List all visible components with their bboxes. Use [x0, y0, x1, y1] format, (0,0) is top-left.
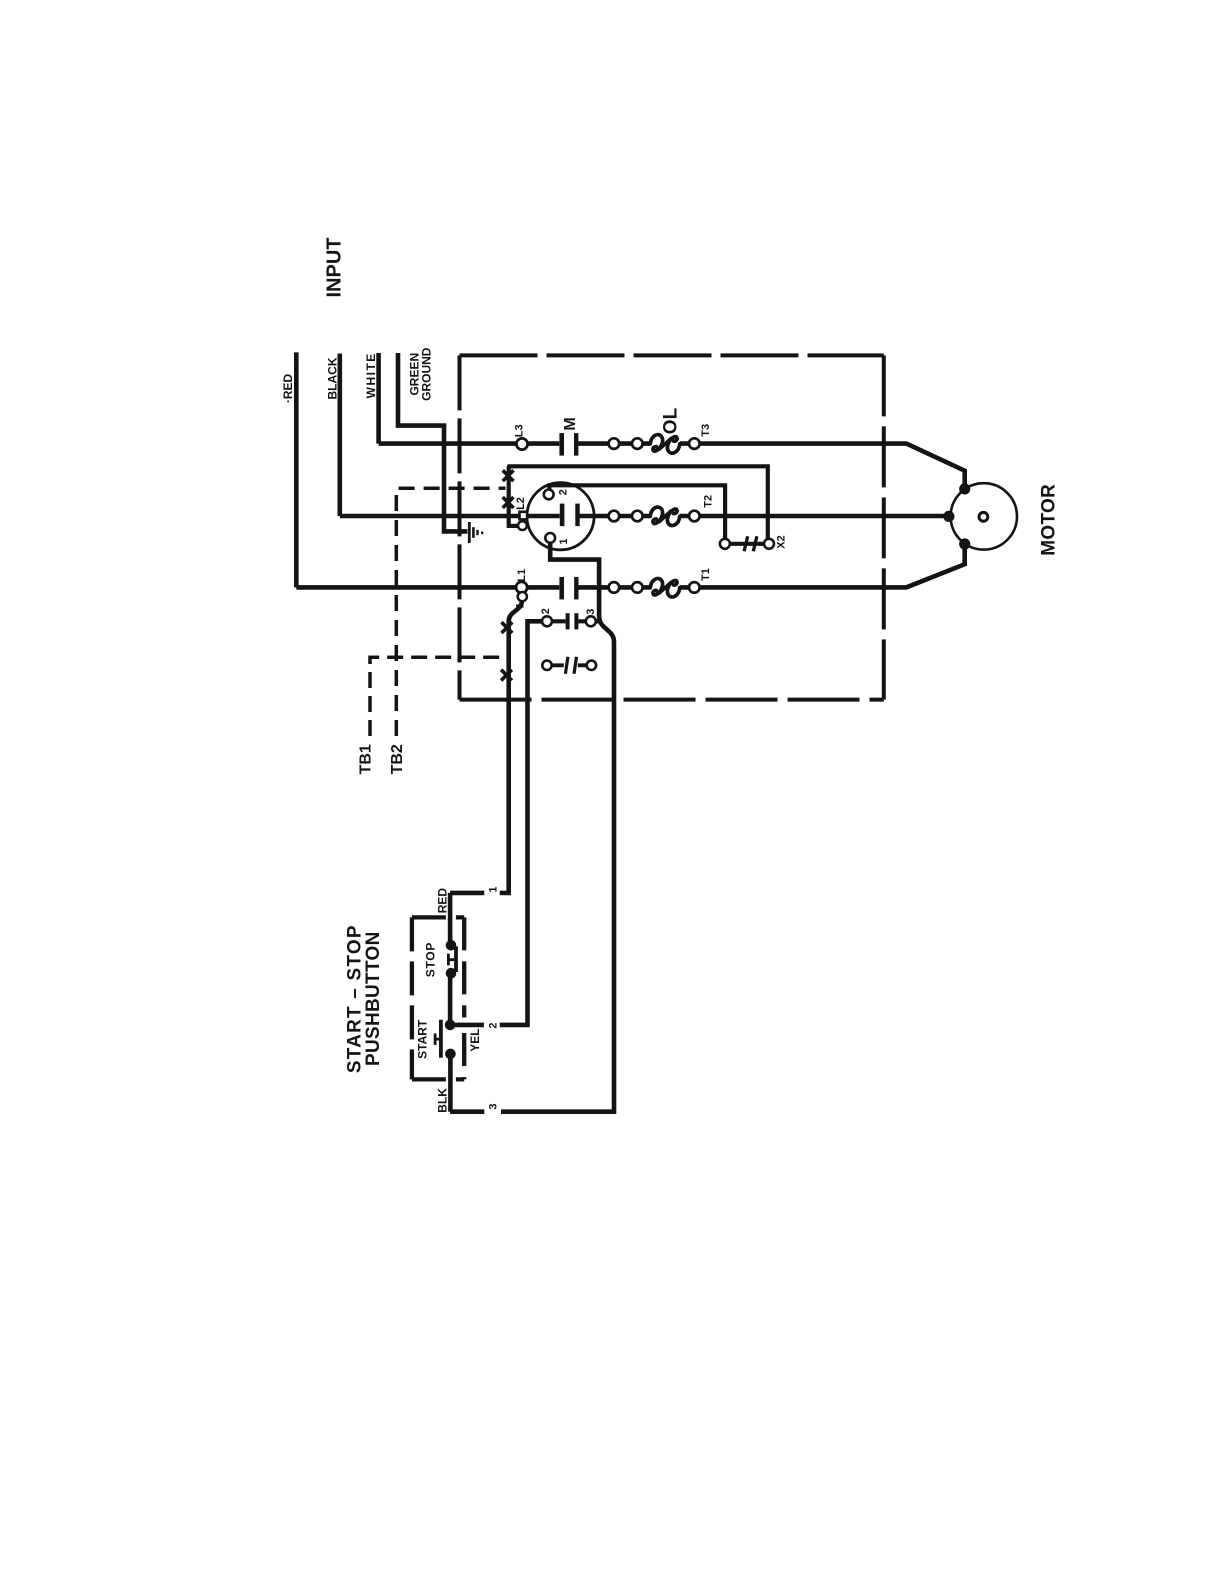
svg-text:TB1: TB1 [358, 744, 375, 774]
OL block terminal circles top phase [609, 438, 620, 449]
OL block terminal circles bottom phase [609, 582, 620, 593]
terminal cross X upper [503, 470, 514, 481]
wire aux terminal 2 down to YEL pushbutton wire [500, 621, 547, 1025]
input wire BLACK vertical [337, 354, 342, 517]
svg-text:·RED: ·RED [281, 374, 295, 404]
terminal circle L1 [516, 582, 527, 593]
svg-text:T1: T1 [700, 568, 712, 581]
input wire WHITE vertical [376, 353, 381, 444]
START contact dots [445, 1020, 456, 1031]
X2 branch wire [725, 542, 769, 546]
input wire GREEN GROUND run [398, 353, 467, 531]
OL block terminal circles middle phase [609, 511, 620, 522]
overload contact terminal circles [542, 661, 551, 670]
coil terminal 2 circle [544, 490, 554, 500]
START pushbutton actuator [435, 1033, 439, 1045]
coil terminal 1 circle [545, 533, 555, 543]
overload relay contact row wire [547, 663, 591, 667]
svg-text:PUSHBUTTON: PUSHBUTTON [363, 931, 384, 1066]
wire from coil terminal 1 down to holding contact junction and BLK pushbutton wire [501, 541, 614, 1112]
enclosure dashed box bottom edge [460, 698, 884, 702]
overload heater OL bottom phase [650, 578, 679, 597]
overload relay contact slanted bars [565, 657, 576, 674]
small circle terminal below L2 [518, 521, 527, 530]
overload heater OL top phase [650, 435, 679, 454]
svg-text:INPUT: INPUT [324, 238, 346, 298]
svg-text:2: 2 [540, 608, 552, 614]
input wire RED vertical [294, 352, 299, 587]
terminal board TB1 dashed leader line [370, 657, 507, 736]
wire from coil terminal 2 to transformer X2 [549, 485, 725, 539]
holding contact aux bars [566, 613, 579, 629]
holding contact aux row wire [547, 619, 599, 623]
svg-text:3: 3 [585, 609, 597, 615]
svg-text:L3: L3 [514, 424, 526, 437]
motor terminal dots [959, 483, 970, 494]
terminal circle L3 [516, 438, 527, 449]
BLK wire left part after label gap [450, 1109, 484, 1114]
svg-text:YEL: YEL [468, 1028, 482, 1051]
START pushbutton NO bar [439, 1020, 443, 1058]
svg-text:STOP: STOP [424, 942, 438, 977]
svg-text:L2: L2 [515, 497, 527, 510]
wire vertical with terminal crosses down to L2 coil tap [509, 466, 518, 526]
enclosure dashed box top edge [460, 353, 884, 357]
motor shaft small circle [979, 512, 988, 521]
square terminal L2 [520, 512, 528, 520]
X2 slanted bars [744, 536, 757, 551]
pushbutton dashed box [412, 917, 464, 1079]
svg-text:T2: T2 [703, 495, 715, 508]
svg-text:2: 2 [488, 1022, 500, 1028]
wire L1 tap down through terminal crosses to RED pushbutton wire [500, 599, 523, 893]
svg-text:BLK: BLK [435, 1088, 449, 1113]
svg-text:RED: RED [435, 888, 449, 914]
terminal cross X lower [503, 497, 514, 508]
motor circle [951, 483, 1017, 549]
pushbutton common wire segments [448, 893, 453, 1112]
aux contact terminal circles [542, 616, 552, 626]
STOP pushbutton actuator [448, 954, 454, 966]
svg-text:1: 1 [558, 538, 570, 544]
YEL wire left part after label gap [451, 1023, 484, 1028]
svg-text:1: 1 [515, 603, 527, 609]
wire upper rectangle from L2 tap to X2 right [507, 466, 768, 543]
terminal circle below L1 [518, 592, 527, 601]
contactor M main contact bars middle phase (inside coil circle) [560, 504, 580, 526]
enclosure dashed box right edge [882, 355, 886, 699]
terminal cross X on control red wire upper [502, 622, 513, 633]
svg-text:T3: T3 [700, 424, 712, 437]
phase wire L3 top: white input to motor [379, 444, 965, 489]
phase wire L2 middle: black input to motor [340, 514, 949, 519]
terminal cross X on control red wire lower [501, 670, 512, 681]
earth ground symbol [468, 522, 483, 543]
svg-text:GROUND: GROUND [419, 347, 433, 401]
svg-text:START: START [416, 1019, 430, 1059]
contactor coil circle M [527, 483, 594, 550]
overload heater OL middle phase [650, 507, 679, 526]
RED wire left part after label gap [450, 891, 484, 896]
X2 terminal circles [720, 539, 730, 549]
STOP contact dots [446, 940, 457, 951]
svg-text:1: 1 [488, 886, 500, 892]
svg-text:MOTOR: MOTOR [1039, 484, 1060, 556]
svg-text:BLACK: BLACK [326, 357, 340, 399]
svg-text:WHITE: WHITE [364, 352, 378, 398]
phase wire L1 bottom: red input to motor [296, 544, 964, 587]
svg-text:TB2: TB2 [389, 744, 406, 774]
svg-text:2: 2 [557, 489, 569, 495]
STOP pushbutton NC bridging bar [454, 946, 458, 972]
contactor M main contact bars top phase [559, 433, 578, 456]
terminal board TB2 dashed leader line [396, 488, 505, 736]
svg-text:L1: L1 [516, 569, 528, 582]
svg-text:X2: X2 [776, 535, 788, 548]
svg-text:M: M [562, 417, 579, 430]
enclosure dashed box left edge [458, 355, 462, 699]
svg-text:3: 3 [488, 1103, 500, 1109]
contactor M main contact bars bottom phase [559, 577, 578, 600]
svg-text:OL: OL [661, 407, 682, 434]
